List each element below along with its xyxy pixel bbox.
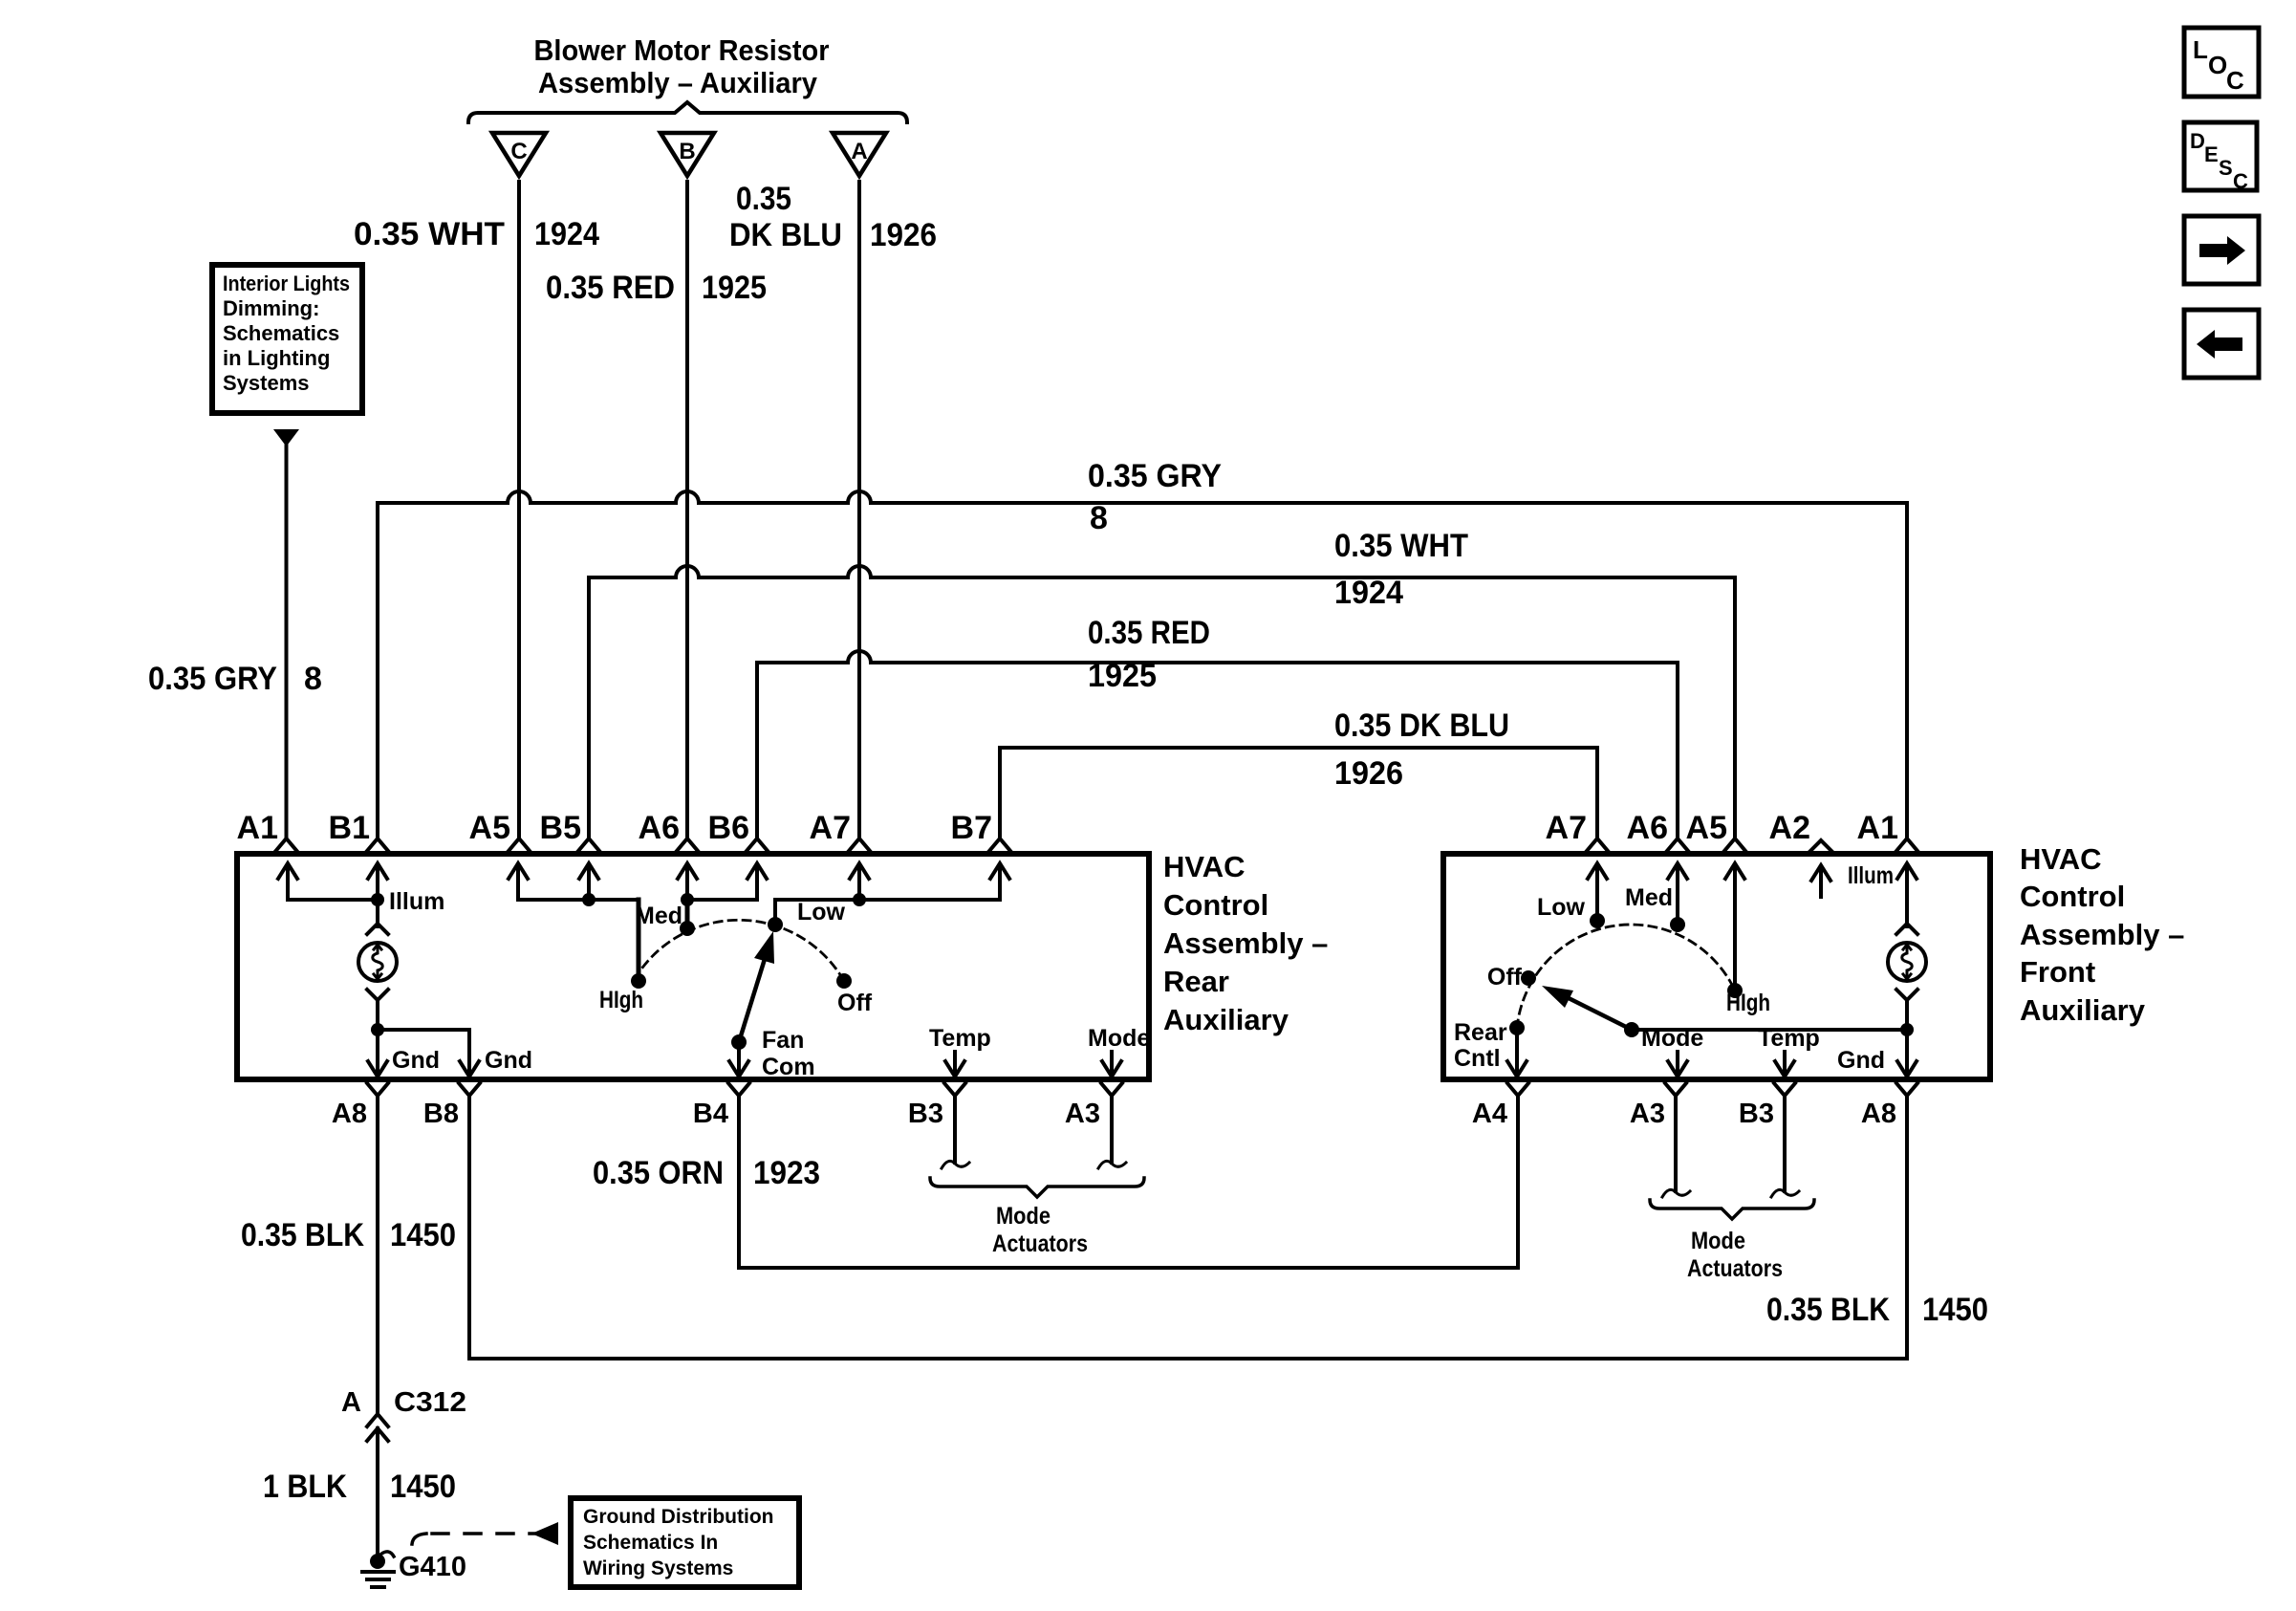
- rear bottom terminal chevrons: [367, 1083, 1122, 1096]
- contact Low rear: [768, 917, 783, 932]
- svg-text:E: E: [2204, 142, 2219, 166]
- wire rear B3 mode actuator lead: [953, 1096, 957, 1163]
- svg-text:Low: Low: [797, 899, 846, 925]
- svg-text:L: L: [2193, 35, 2208, 64]
- pin arrow Temp rear: [945, 1052, 964, 1077]
- contact Low front: [1590, 913, 1605, 928]
- node fan com pivot: [731, 1034, 747, 1050]
- svg-text:Auxiliary: Auxiliary: [2020, 993, 2146, 1027]
- svg-text:HIgh: HIgh: [1726, 990, 1770, 1016]
- contact Med front: [1670, 917, 1685, 932]
- wire 0.35 GRY bus B1 to front A1: [378, 491, 1907, 838]
- HVAC control assembly front box: [1443, 854, 1990, 1079]
- svg-text:B7: B7: [951, 810, 992, 846]
- rear internal pin arrows: [278, 863, 1009, 900]
- svg-text:1450: 1450: [390, 1469, 456, 1505]
- svg-text:0.35 ORN: 0.35 ORN: [593, 1155, 724, 1191]
- svg-text:A8: A8: [1861, 1099, 1896, 1129]
- label Temp front: [1758, 1025, 1820, 1052]
- wire front lamp to gnd node: [1905, 1000, 1909, 1030]
- svg-text:Ground Distribution: Ground Distribution: [583, 1506, 773, 1528]
- svg-text:Off: Off: [1487, 964, 1523, 991]
- front terminal chevrons top: [1587, 838, 1917, 851]
- svg-text:Systems: Systems: [223, 371, 310, 395]
- svg-text:A3: A3: [1065, 1099, 1100, 1129]
- svg-text:A4: A4: [1472, 1099, 1507, 1129]
- lamp EL1 rear illumination: [358, 943, 397, 981]
- svg-text:1925: 1925: [1088, 658, 1157, 694]
- pin arrow Temp front: [1775, 1052, 1794, 1077]
- svg-text:1 BLK: 1 BLK: [263, 1469, 347, 1505]
- label 0.35 DK BLU 1926 (bus): [1334, 708, 1509, 792]
- wire rear B4 to front A4 0.35 ORN: [739, 1096, 1518, 1268]
- svg-text:DK BLU: DK BLU: [729, 217, 842, 253]
- label Mode Actuators rear: [992, 1203, 1088, 1257]
- svg-text:C: C: [2226, 66, 2244, 95]
- wire front gnd node to A8 pin: [1897, 1030, 1917, 1077]
- wire lamp to gnd node: [376, 1000, 379, 1030]
- svg-text:Com: Com: [762, 1054, 815, 1080]
- svg-text:Wiring Systems: Wiring Systems: [583, 1557, 733, 1579]
- contact Off rear: [836, 973, 852, 989]
- node front pivot: [1624, 1022, 1639, 1037]
- svg-text:C312: C312: [394, 1387, 466, 1418]
- wire Illum to lamp: [376, 900, 379, 926]
- svg-text:A1: A1: [1857, 810, 1898, 846]
- svg-text:A5: A5: [1686, 810, 1727, 846]
- wire 0.35 WHT bus B5 to front A5: [589, 566, 1735, 838]
- svg-text:1926: 1926: [870, 217, 937, 253]
- label 0.35 BLK 1450 (A8): [241, 1217, 456, 1253]
- svg-text:0.35 RED: 0.35 RED: [546, 270, 675, 306]
- label HVAC Control Assembly Front Auxiliary: [2020, 842, 2184, 1027]
- svg-text:Dimming:: Dimming:: [223, 296, 319, 320]
- svg-text:Control: Control: [2020, 880, 2125, 913]
- svg-text:Fan: Fan: [762, 1027, 804, 1054]
- label 0.35 WHT 1924 (bus): [1334, 528, 1468, 611]
- svg-text:A7: A7: [810, 810, 851, 846]
- svg-text:HVAC: HVAC: [2020, 842, 2102, 876]
- svg-text:Rear: Rear: [1163, 965, 1229, 998]
- squiggle terminator front B3: [1771, 1189, 1799, 1197]
- brace over connectors: [468, 102, 907, 122]
- label 0.35 WHT 1924: [354, 216, 599, 252]
- svg-text:in Lighting: in Lighting: [223, 346, 330, 370]
- wire rear B8 to front A8 0.35 BLK: [469, 1096, 1907, 1359]
- svg-text:Schematics: Schematics: [223, 321, 339, 345]
- wire C312 to G410: [376, 1428, 379, 1556]
- dashed reference pointer to ground note: [412, 1522, 558, 1545]
- fan selector wiper rear: [739, 931, 774, 1042]
- nav box arrow right: [2184, 216, 2259, 284]
- wire A6-B6: [687, 898, 755, 902]
- wire A to rear A7: [857, 182, 861, 838]
- label Gnd front: [1837, 1047, 1885, 1074]
- svg-text:Med: Med: [635, 903, 682, 929]
- svg-text:Assembly –: Assembly –: [1163, 926, 1328, 960]
- label 0.35 BLK 1450 (front A8): [1766, 1292, 1988, 1328]
- contact Med rear: [680, 921, 695, 936]
- svg-text:Illum: Illum: [1848, 862, 1894, 889]
- svg-text:B: B: [679, 139, 695, 164]
- label Gnd A8: [392, 1047, 440, 1074]
- svg-text:O: O: [2208, 51, 2227, 79]
- svg-text:B3: B3: [908, 1099, 943, 1129]
- wire gnd node to A8 pin arrow: [368, 1030, 387, 1077]
- wire rear cntl to A4 pin: [1507, 1028, 1527, 1077]
- svg-text:Actuators: Actuators: [1687, 1255, 1783, 1282]
- front bottom terminal labels: [1472, 1099, 1896, 1129]
- rear bottom terminal labels: [332, 1099, 1100, 1129]
- label Gnd B8: [485, 1047, 532, 1074]
- wire front A1 to lamp: [1905, 900, 1909, 926]
- svg-text:HIgh: HIgh: [599, 987, 643, 1013]
- label HVAC Control Assembly Rear Auxiliary: [1163, 850, 1328, 1036]
- label 0.35 ORN 1923: [593, 1155, 820, 1191]
- connector C: [492, 133, 546, 176]
- wire interior lights to rear A1: [285, 445, 289, 838]
- svg-text:0.35: 0.35: [736, 181, 791, 217]
- wire C to rear A5: [517, 182, 521, 838]
- svg-text:B8: B8: [423, 1099, 459, 1129]
- note box Ground Distribution: [571, 1498, 799, 1587]
- squiggle terminator front A3: [1662, 1189, 1690, 1197]
- label Med rear: [635, 903, 682, 929]
- svg-text:0.35 BLK: 0.35 BLK: [1766, 1292, 1890, 1328]
- contact Off front: [1521, 970, 1536, 986]
- fan selector wiper front: [1542, 986, 1632, 1030]
- svg-text:1924: 1924: [534, 216, 599, 252]
- svg-text:8: 8: [304, 661, 322, 697]
- title Blower Motor Resistor Assembly - Auxiliary: [534, 33, 830, 99]
- svg-text:B4: B4: [693, 1099, 728, 1129]
- HVAC control assembly rear box: [237, 854, 1149, 1079]
- contact Rear Cntl front: [1509, 1020, 1525, 1035]
- svg-text:Assembly – Auxiliary: Assembly – Auxiliary: [538, 66, 818, 99]
- label 0.35 GRY 8 (left): [148, 661, 322, 697]
- wire rear A8 ground lead: [376, 1096, 379, 1413]
- front internal pin arrows: [1588, 863, 1917, 985]
- svg-text:Interior Lights: Interior Lights: [223, 272, 350, 295]
- node A7 junction: [853, 893, 866, 906]
- nav box DESC: [2184, 122, 2257, 193]
- lamp EL2 front illumination: [1888, 943, 1926, 981]
- node front gnd junction: [1900, 1023, 1914, 1036]
- wire High stub: [637, 900, 641, 975]
- chevron below front lamp: [1896, 990, 1917, 1000]
- svg-text:A7: A7: [1546, 810, 1587, 846]
- brace rear mode actuators: [930, 1178, 1144, 1197]
- svg-text:A3: A3: [1630, 1099, 1665, 1129]
- label Mode front: [1641, 1025, 1703, 1052]
- front terminal labels top: [1546, 810, 1898, 846]
- squiggle terminator rear B3: [942, 1161, 969, 1168]
- label Temp rear: [929, 1025, 991, 1052]
- svg-text:0.35 DK BLU: 0.35 DK BLU: [1334, 708, 1509, 744]
- svg-text:Schematics In: Schematics In: [583, 1532, 718, 1554]
- svg-text:1925: 1925: [702, 270, 767, 306]
- svg-text:Off: Off: [837, 990, 873, 1016]
- pin arrow Mode front: [1668, 1052, 1687, 1077]
- contact High front: [1727, 983, 1743, 998]
- svg-text:Rear: Rear: [1454, 1019, 1507, 1046]
- wire 0.35 RED bus B6 to front A6: [757, 651, 1678, 838]
- brace front mode actuators: [1650, 1200, 1814, 1219]
- svg-text:S: S: [2219, 156, 2233, 180]
- rear terminal chevrons top: [276, 838, 1011, 851]
- wire A6 to Med contact: [685, 900, 690, 923]
- wire B to rear A6: [685, 182, 689, 838]
- svg-text:A8: A8: [332, 1099, 367, 1129]
- svg-text:B6: B6: [708, 810, 749, 846]
- svg-text:Gnd: Gnd: [392, 1047, 440, 1074]
- svg-text:D: D: [2190, 129, 2205, 153]
- connector A: [833, 133, 886, 176]
- svg-text:8: 8: [1090, 500, 1108, 536]
- nav box LOC: [2184, 28, 2259, 97]
- svg-text:Med: Med: [1625, 884, 1673, 911]
- rear terminal labels top: [237, 810, 992, 846]
- label 0.35 GRY 8 (bus): [1088, 458, 1222, 536]
- svg-text:Gnd: Gnd: [1837, 1047, 1885, 1074]
- svg-text:0.35 WHT: 0.35 WHT: [354, 216, 505, 252]
- connector B: [661, 133, 714, 176]
- nav box arrow left: [2184, 310, 2259, 378]
- svg-text:Mode: Mode: [1088, 1025, 1150, 1052]
- node A6 junction: [681, 893, 694, 906]
- svg-text:Front: Front: [2020, 955, 2095, 989]
- label Mode Actuators front: [1687, 1228, 1783, 1282]
- svg-text:Actuators: Actuators: [992, 1230, 1088, 1257]
- arrow from note box: [273, 429, 299, 446]
- svg-text:0.35 RED: 0.35 RED: [1088, 615, 1210, 651]
- svg-text:C: C: [510, 139, 527, 164]
- svg-text:Temp: Temp: [1758, 1025, 1820, 1052]
- squiggle terminator rear A3: [1098, 1161, 1126, 1168]
- svg-text:1926: 1926: [1334, 755, 1403, 792]
- svg-text:B3: B3: [1739, 1099, 1774, 1129]
- svg-text:Blower Motor Resistor: Blower Motor Resistor: [534, 33, 830, 67]
- contact High rear: [631, 973, 646, 989]
- svg-text:1923: 1923: [753, 1155, 820, 1191]
- svg-text:0.35 GRY: 0.35 GRY: [148, 661, 277, 697]
- svg-text:Temp: Temp: [929, 1025, 991, 1052]
- wire rear A3 mode actuator lead: [1110, 1096, 1114, 1163]
- wire front A3 mode actuator lead: [1674, 1096, 1678, 1191]
- ground G410: [362, 1552, 466, 1587]
- connector C312 pin A: [341, 1387, 466, 1441]
- label 1 BLK 1450: [263, 1469, 456, 1505]
- wire A5-B5 to High stub: [518, 898, 639, 902]
- node gnd junction rear: [371, 1023, 384, 1036]
- svg-text:G410: G410: [399, 1552, 466, 1582]
- svg-text:B1: B1: [329, 810, 370, 846]
- wire gnd node to B8 pin arrow: [378, 1030, 479, 1077]
- svg-text:A6: A6: [639, 810, 680, 846]
- svg-text:1924: 1924: [1334, 575, 1403, 611]
- svg-text:Control: Control: [1163, 888, 1268, 922]
- svg-text:A: A: [851, 139, 867, 164]
- svg-text:A5: A5: [469, 810, 510, 846]
- svg-text:A: A: [341, 1387, 361, 1418]
- label Mode rear: [1088, 1025, 1150, 1052]
- chevron above front lamp: [1896, 924, 1917, 934]
- label 0.35 DK BLU 1926: [729, 181, 937, 253]
- label Illum front: [1848, 862, 1894, 889]
- svg-text:1450: 1450: [1922, 1292, 1988, 1328]
- wire Low stub to B7: [775, 900, 1000, 923]
- node Illum: [371, 893, 384, 906]
- svg-text:Illum: Illum: [389, 888, 444, 915]
- svg-text:A6: A6: [1627, 810, 1668, 846]
- svg-text:B5: B5: [540, 810, 581, 846]
- wire front pivot to gnd node: [1632, 1028, 1907, 1032]
- node B5 junction: [582, 893, 596, 906]
- svg-text:HVAC: HVAC: [1163, 850, 1245, 883]
- svg-text:Gnd: Gnd: [485, 1047, 532, 1074]
- svg-text:A1: A1: [237, 810, 278, 846]
- svg-text:0.35 GRY: 0.35 GRY: [1088, 458, 1222, 494]
- note box Interior Lights Dimming: [212, 265, 362, 413]
- pin arrow Mode rear: [1102, 1052, 1121, 1077]
- wire 0.35 DK BLU bus B7 to front A7: [1000, 748, 1597, 838]
- svg-text:Cntl: Cntl: [1454, 1045, 1501, 1072]
- svg-text:Mode: Mode: [1641, 1025, 1703, 1052]
- front bottom terminal chevrons: [1507, 1083, 1917, 1096]
- svg-text:Auxiliary: Auxiliary: [1163, 1003, 1289, 1036]
- chevron above lamp: [367, 924, 388, 934]
- svg-text:A2: A2: [1769, 810, 1810, 846]
- wire fan com to B4: [729, 1042, 748, 1077]
- svg-text:C: C: [2233, 169, 2248, 193]
- wire front B3 mode actuator lead: [1783, 1096, 1787, 1191]
- svg-text:0.35 WHT: 0.35 WHT: [1334, 528, 1468, 564]
- rotary arc front fan switch: [1517, 925, 1735, 1028]
- svg-text:Mode: Mode: [1691, 1228, 1745, 1254]
- svg-text:0.35 BLK: 0.35 BLK: [241, 1217, 364, 1253]
- label 0.35 RED 1925: [546, 270, 767, 306]
- wire A1 to Illum node: [288, 898, 378, 902]
- svg-text:Mode: Mode: [996, 1203, 1051, 1230]
- svg-text:1450: 1450: [390, 1217, 456, 1253]
- label 0.35 RED 1925 (bus): [1088, 615, 1210, 694]
- chevron below lamp: [367, 990, 388, 1000]
- svg-text:Low: Low: [1537, 894, 1586, 921]
- svg-text:Assembly –: Assembly –: [2020, 918, 2184, 951]
- rotary arc rear fan switch: [635, 920, 844, 981]
